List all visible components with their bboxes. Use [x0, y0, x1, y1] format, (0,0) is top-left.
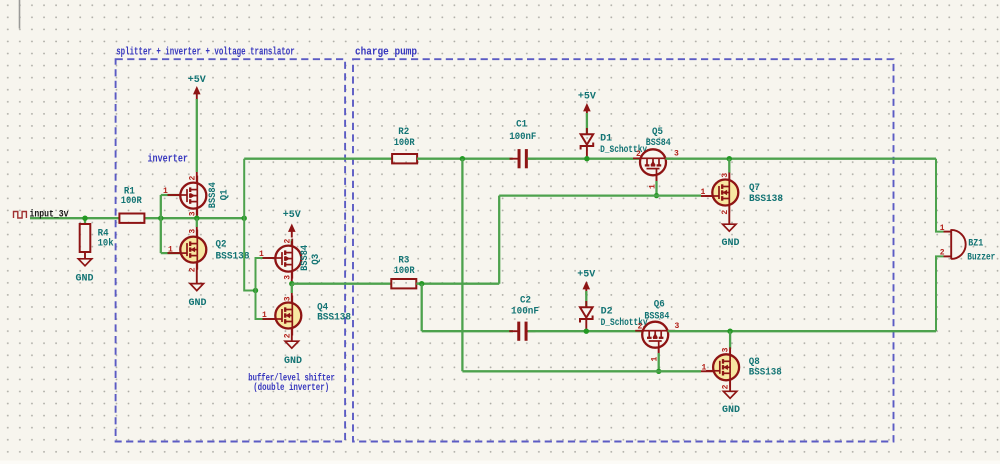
svg-text:R2: R2 [398, 127, 409, 138]
svg-text:3: 3 [722, 347, 731, 352]
svg-text:BZ1: BZ1 [968, 239, 983, 250]
svg-text:1: 1 [702, 363, 707, 372]
svg-text:Q7: Q7 [749, 183, 760, 194]
svg-text:+5V: +5V [188, 75, 206, 86]
svg-text:Q6: Q6 [654, 299, 665, 310]
svg-text:2: 2 [283, 239, 292, 244]
svg-text:3: 3 [674, 150, 679, 159]
svg-text:2: 2 [283, 333, 292, 338]
svg-text:3: 3 [675, 322, 680, 331]
svg-text:1: 1 [168, 245, 173, 254]
svg-text:1: 1 [163, 187, 168, 196]
svg-text:1: 1 [259, 250, 264, 259]
svg-text:C1: C1 [516, 119, 527, 130]
svg-text:BSS138: BSS138 [317, 313, 351, 324]
svg-text:2: 2 [188, 176, 197, 181]
svg-text:R3: R3 [398, 255, 409, 266]
svg-text:3: 3 [283, 296, 292, 301]
svg-text:2: 2 [722, 384, 731, 389]
svg-text:Buzzer: Buzzer [967, 253, 995, 264]
svg-text:2: 2 [721, 210, 730, 215]
svg-text:BSS84: BSS84 [208, 182, 219, 208]
svg-text:10k: 10k [98, 237, 114, 249]
svg-text:BSS84: BSS84 [300, 245, 311, 271]
svg-text:1: 1 [701, 188, 706, 197]
svg-text:1: 1 [940, 224, 945, 233]
svg-text:+5V: +5V [577, 270, 595, 281]
svg-text:D1: D1 [600, 133, 612, 144]
svg-text:BSS138: BSS138 [749, 368, 782, 379]
svg-text:GND: GND [721, 238, 739, 249]
svg-text:BSS84: BSS84 [644, 312, 669, 323]
svg-text:GND: GND [722, 405, 740, 416]
svg-text:+5V: +5V [578, 91, 596, 102]
svg-text:3: 3 [188, 229, 197, 234]
svg-text:splitter + inverter + voltage: splitter + inverter + voltage translator [116, 47, 295, 59]
svg-text:GND: GND [284, 356, 302, 367]
svg-text:D2: D2 [601, 306, 613, 317]
svg-text:100R: 100R [394, 138, 415, 149]
svg-text:GND: GND [188, 298, 206, 309]
svg-text:input_3v: input_3v [30, 209, 70, 221]
svg-text:3: 3 [721, 173, 730, 178]
svg-text:3: 3 [283, 275, 292, 280]
svg-text:100nF: 100nF [511, 306, 539, 317]
svg-text:charge pump: charge pump [355, 47, 417, 59]
svg-text:2: 2 [636, 150, 641, 159]
svg-text:2: 2 [638, 323, 643, 332]
svg-text:Q1: Q1 [220, 189, 231, 200]
svg-text:GND: GND [75, 274, 93, 285]
svg-text:(double inverter): (double inverter) [253, 382, 329, 394]
svg-text:Q8: Q8 [749, 357, 760, 368]
svg-text:2: 2 [188, 267, 197, 272]
svg-text:+5V: +5V [283, 210, 301, 221]
svg-text:BSS84: BSS84 [646, 138, 671, 149]
svg-text:BSS138: BSS138 [749, 194, 783, 205]
svg-text:2: 2 [940, 249, 945, 258]
svg-text:3: 3 [188, 211, 197, 216]
svg-text:100R: 100R [121, 196, 142, 207]
svg-text:100nF: 100nF [509, 132, 536, 143]
svg-text:Q3: Q3 [311, 254, 322, 265]
svg-text:C2: C2 [520, 296, 531, 307]
svg-text:1: 1 [262, 311, 267, 320]
svg-text:100R: 100R [394, 266, 415, 277]
svg-text:inverter: inverter [148, 154, 189, 166]
svg-text:Q5: Q5 [652, 127, 663, 138]
svg-text:Q2: Q2 [216, 239, 227, 250]
